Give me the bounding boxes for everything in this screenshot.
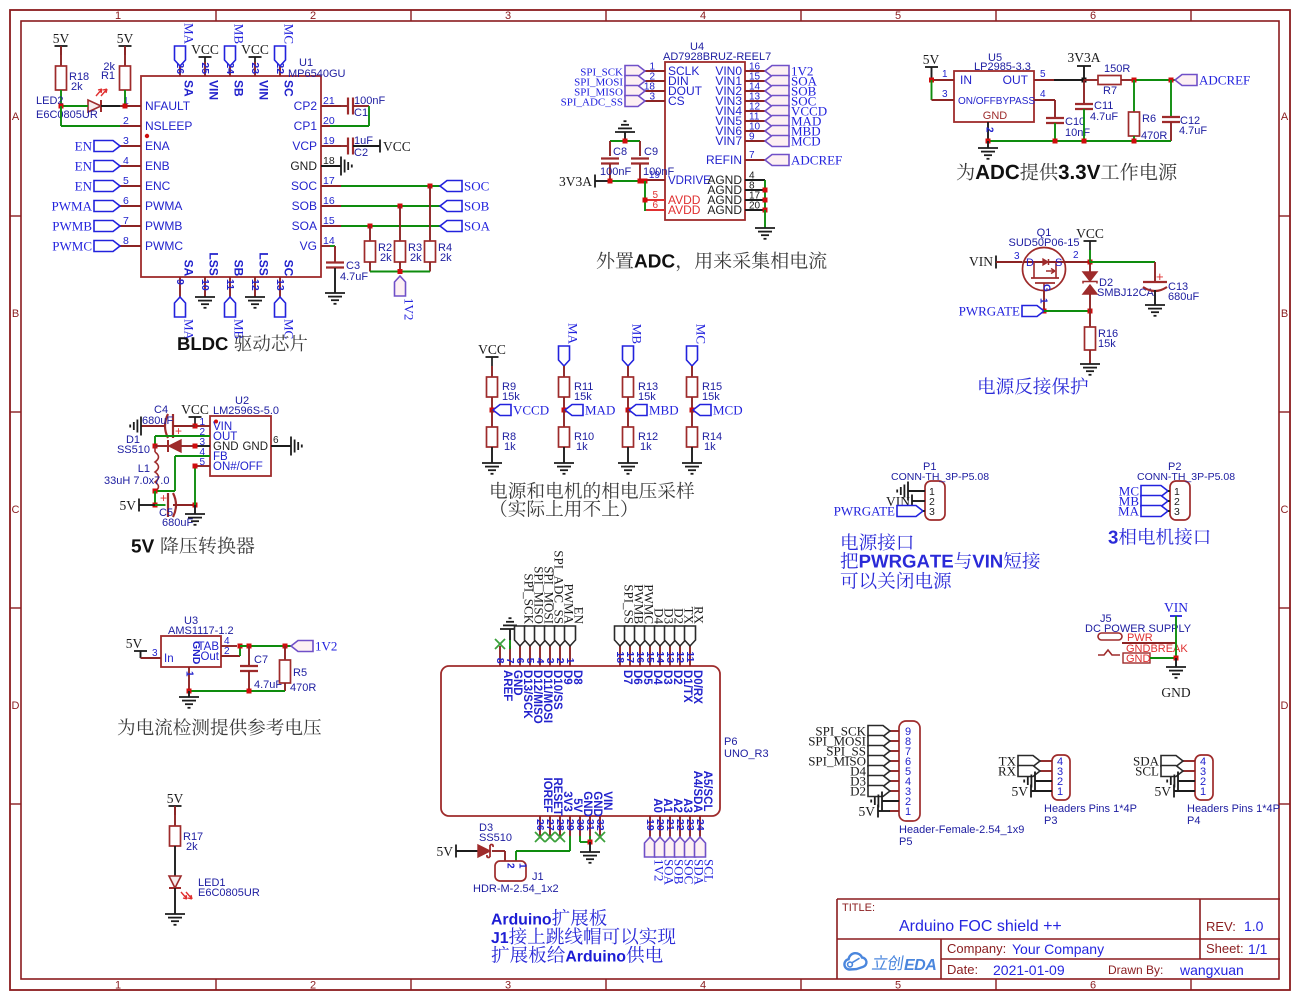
wire SOA net xyxy=(341,224,440,229)
net flag PWMA (P6 top) xyxy=(555,584,577,646)
wire P6 GND pins xyxy=(580,836,593,845)
net flag SOA xyxy=(440,219,491,234)
svg-text:2: 2 xyxy=(310,10,316,22)
svg-text:5V: 5V xyxy=(117,31,134,46)
net flag MBD xyxy=(626,403,679,418)
resistor R17 2k xyxy=(170,826,204,876)
net flag TX (P6 top) xyxy=(675,607,697,646)
net flag D4 (P6 top) xyxy=(645,608,667,646)
U4 pin 3 CS xyxy=(645,92,685,109)
svg-text:PWMA: PWMA xyxy=(52,199,93,214)
svg-text:8: 8 xyxy=(123,235,129,247)
P6 pin 6 D13/SCK xyxy=(514,646,533,719)
svg-text:VCC: VCC xyxy=(383,139,411,154)
svg-text:NSLEEP: NSLEEP xyxy=(145,119,192,133)
svg-text:P3: P3 xyxy=(1044,815,1057,827)
U5 pin 5 OUT wire xyxy=(1034,69,1087,83)
svg-text:1.0: 1.0 xyxy=(1244,918,1264,934)
net flag VCCD (U4) xyxy=(765,104,827,119)
P1 pin 3 / PWRGATE flag xyxy=(834,504,935,519)
svg-text:VCC: VCC xyxy=(478,342,506,357)
net flag 1V2 (below R3) xyxy=(395,276,417,320)
ground (C5) xyxy=(185,505,205,525)
P6 pin 16 D5 xyxy=(634,646,653,685)
net flag SOA (U4) xyxy=(765,74,818,89)
P6 pin 19 A0 xyxy=(644,798,663,837)
P6 pin 24 A5/SCL xyxy=(694,771,713,837)
capacitor C13 680uF xyxy=(1143,262,1199,305)
svg-text:1: 1 xyxy=(115,980,121,992)
TVS diode D2 SMBJ12CA xyxy=(1083,262,1155,311)
svg-text:7: 7 xyxy=(123,215,129,227)
svg-text:5V: 5V xyxy=(1012,784,1029,799)
svg-text:2: 2 xyxy=(505,863,516,869)
svg-text:2021-01-09: 2021-01-09 xyxy=(993,962,1065,978)
svg-text:SCL: SCL xyxy=(1135,764,1159,779)
U1 pin 20 CP1 xyxy=(294,115,341,133)
svg-text:SC: SC xyxy=(281,260,295,277)
svg-text:6: 6 xyxy=(1090,10,1096,22)
svg-text:E6C0805UR: E6C0805UR xyxy=(36,109,98,121)
ground (U5) xyxy=(978,141,998,159)
svg-text:CONN-TH_3P-P5.08: CONN-TH_3P-P5.08 xyxy=(1137,471,1235,483)
U5 pin 4 BYPASS wire xyxy=(1034,89,1055,117)
P4 pin 4 / SDA flag xyxy=(1133,754,1206,769)
svg-text:Out: Out xyxy=(200,651,219,663)
svg-text:GND: GND xyxy=(983,110,1008,122)
resistor R8 1k xyxy=(487,410,517,463)
svg-text:2: 2 xyxy=(984,127,995,133)
svg-text:CS: CS xyxy=(668,94,685,108)
net flag MC (divider top) xyxy=(687,324,709,377)
ground (R16) xyxy=(1080,364,1100,375)
border row letters xyxy=(12,111,1289,712)
LCEDA logo xyxy=(844,953,936,974)
P6 pin 8 AREF xyxy=(494,646,513,701)
svg-text:17: 17 xyxy=(323,175,335,187)
svg-text:SOA: SOA xyxy=(464,219,491,234)
wire C1 to CP1 xyxy=(321,106,369,126)
svg-text:16: 16 xyxy=(323,195,335,207)
connector P6 UNO_R3 body xyxy=(441,666,769,816)
net flag SOA (P6 bottom) xyxy=(655,837,677,886)
wire OUT to D1 xyxy=(155,436,210,446)
connector P1 CONN-TH_3P-P5.08 xyxy=(891,461,989,520)
net flag SPI_ADC_SS (U4) xyxy=(561,96,645,109)
svg-text:MC: MC xyxy=(694,324,709,344)
svg-text:15k: 15k xyxy=(574,391,592,403)
resistor R16 15k xyxy=(1085,311,1119,364)
P6 pin 5 D12/MISO xyxy=(524,646,543,724)
svg-text:21: 21 xyxy=(323,95,335,107)
ground (C4, left) xyxy=(130,417,141,436)
no-connect X (RESET) xyxy=(545,832,555,842)
net flag SPI_SCK (U4) xyxy=(580,66,645,79)
svg-text:ON/OFFBYPASS: ON/OFFBYPASS xyxy=(958,96,1035,107)
svg-text:EN: EN xyxy=(75,139,93,154)
net flag SOC (U4) xyxy=(765,94,816,109)
svg-text:5: 5 xyxy=(895,980,901,992)
ground (U1 pin10 LSS) xyxy=(195,297,215,308)
svg-text:15k: 15k xyxy=(502,391,520,403)
svg-text:ENC: ENC xyxy=(145,179,171,193)
P5 pin 4 / D3 flag xyxy=(850,774,911,789)
svg-text:5V: 5V xyxy=(437,844,454,859)
power flag 5V (D3) xyxy=(437,844,479,859)
Q1 gate wire PWRGATE xyxy=(1038,291,1049,314)
net flag MC (U1 pin22) xyxy=(275,24,297,66)
P5 pin 8 / SPI_MOSI flag xyxy=(808,734,911,749)
svg-text:5V: 5V xyxy=(859,804,876,819)
net flag PWMC (U1) xyxy=(52,239,120,254)
svg-text:+: + xyxy=(160,491,167,505)
wire R2 top xyxy=(369,226,371,241)
svg-text:10nF: 10nF xyxy=(1065,127,1090,139)
U1 pin 16 SOB xyxy=(292,195,341,213)
svg-text:SOB: SOB xyxy=(292,199,317,213)
net flag SOB (P6 bottom) xyxy=(665,837,687,885)
svg-text:9: 9 xyxy=(749,132,755,143)
P6 pin 13 D2 xyxy=(664,646,683,685)
connector P5 Header-Female-2.54_1x9 xyxy=(899,721,1024,848)
svg-text:B: B xyxy=(12,308,19,320)
svg-text:ADCREF: ADCREF xyxy=(1199,73,1250,88)
svg-text:2k: 2k xyxy=(410,252,422,264)
capacitor C5 680uF xyxy=(155,491,198,529)
power 3V3A (U5) xyxy=(1068,50,1101,80)
svg-text:L1: L1 xyxy=(138,463,150,475)
wire P6 5V to J1 xyxy=(516,836,570,861)
U1 pin 3 ENA xyxy=(120,135,170,153)
P6 pin 1 D8 xyxy=(564,646,583,685)
wire AGND rail xyxy=(763,180,768,228)
svg-text:LSS: LSS xyxy=(256,252,270,275)
caption 5V buck xyxy=(132,536,255,554)
svg-text:3: 3 xyxy=(1014,251,1020,262)
svg-text:3: 3 xyxy=(1174,506,1180,518)
svg-text:2: 2 xyxy=(1073,250,1079,261)
svg-text:VCC: VCC xyxy=(1076,226,1104,241)
U4 pin 15 VIN1 xyxy=(715,72,765,89)
U4 pin 16 VIN0 xyxy=(715,62,765,79)
svg-text:ADCREF: ADCREF xyxy=(791,153,842,168)
U1 pin 13 SC xyxy=(274,260,296,297)
svg-text:Arduino FOC shield ++: Arduino FOC shield ++ xyxy=(899,918,1062,935)
svg-text:SOA: SOA xyxy=(292,219,317,233)
ground (U2 pin6) xyxy=(291,437,302,456)
P6 pin 23 A4/SDA xyxy=(684,771,703,837)
svg-text:6: 6 xyxy=(123,195,129,207)
resistor R18 2k xyxy=(56,66,90,106)
U1 pin 22 SC xyxy=(274,62,296,97)
svg-text:7: 7 xyxy=(749,150,755,161)
net flag MAD xyxy=(562,403,616,418)
U1 pin 23 VIN xyxy=(249,62,271,100)
svg-text:23: 23 xyxy=(249,62,261,74)
wire LED2 anode net xyxy=(59,104,89,109)
net flag PWMA (U1) xyxy=(52,199,120,214)
svg-text:15k: 15k xyxy=(638,391,656,403)
svg-text:P5: P5 xyxy=(899,836,912,848)
net flag MCD (U4) xyxy=(765,134,821,149)
svg-text:18: 18 xyxy=(323,155,335,167)
svg-text:SOB: SOB xyxy=(464,199,490,214)
U4 pin 17 AGND xyxy=(707,191,765,208)
caption waizhi ADC xyxy=(597,251,827,271)
svg-text:S: S xyxy=(1055,257,1062,269)
caption phase voltage sampling line2 xyxy=(501,500,626,518)
svg-text:ENA: ENA xyxy=(145,139,170,153)
U4 pin 14 VIN2 xyxy=(715,82,765,99)
P6 pin 30 GND xyxy=(574,791,593,836)
wire NFAULT net xyxy=(101,104,128,109)
capacitor C10 10nF xyxy=(1046,116,1090,141)
svg-text:C2: C2 xyxy=(354,147,368,159)
border column numbers xyxy=(115,10,1096,992)
svg-text:Date:: Date: xyxy=(947,962,978,977)
ground (P6 GND) xyxy=(580,842,600,863)
power flag 5V (U2) xyxy=(120,498,156,513)
U2 pin 6 GND xyxy=(242,435,291,453)
svg-text:Drawn By:: Drawn By: xyxy=(1108,963,1163,977)
svg-text:3: 3 xyxy=(929,506,935,518)
power 5V (R18) xyxy=(53,31,70,66)
svg-text:VCP: VCP xyxy=(292,139,317,153)
svg-text:100nF: 100nF xyxy=(643,166,674,178)
U1 pin 9 SA xyxy=(174,260,196,297)
caption P2 xyxy=(1108,528,1209,545)
resistor R4 2k xyxy=(425,241,453,272)
ground (C13) xyxy=(1145,305,1165,316)
net flag SPI_MISO (P6 top) xyxy=(525,566,547,646)
wire VDRIVE rail xyxy=(608,179,648,184)
net flag SPI_SS (P6 top) xyxy=(615,584,637,646)
caption P1 line3 xyxy=(841,572,951,589)
svg-text:Your Company: Your Company xyxy=(1012,941,1104,957)
wire L1 to 5V node xyxy=(153,491,158,508)
svg-text:E6C0805UR: E6C0805UR xyxy=(198,887,260,899)
P2 pin 3 / MA flag xyxy=(1118,504,1180,519)
U1 pin 19 VCP xyxy=(292,135,341,153)
U2 pin 4 FB xyxy=(195,447,228,463)
svg-text:C9: C9 xyxy=(644,146,658,158)
svg-text:VG: VG xyxy=(300,239,317,253)
power flag VIN (J5) xyxy=(1164,600,1188,616)
svg-text:HDR-M-2.54_1x2: HDR-M-2.54_1x2 xyxy=(473,883,559,895)
no-connect X (AREF) xyxy=(495,639,505,649)
net flag PWMB (U1) xyxy=(52,219,120,234)
connector P2 CONN-TH_3P-P5.08 xyxy=(1137,461,1235,520)
ground (R14) xyxy=(682,463,702,474)
U1 pin 21 CP2 xyxy=(294,95,341,113)
svg-text:3: 3 xyxy=(649,92,655,103)
svg-text:D0/RX: D0/RX xyxy=(691,670,703,704)
svg-text:AGND: AGND xyxy=(707,203,742,217)
svg-text:VIN: VIN xyxy=(1164,600,1188,615)
wire NSLEEP net xyxy=(61,106,120,126)
svg-text:MBD: MBD xyxy=(649,403,679,418)
svg-text:3: 3 xyxy=(505,980,511,992)
svg-text:1V2: 1V2 xyxy=(402,298,417,320)
svg-text:4.7uF: 4.7uF xyxy=(340,271,368,283)
P6 pin 3 D10/SS xyxy=(544,646,563,710)
svg-text:5: 5 xyxy=(895,10,901,22)
P6 pin 11 D0/RX xyxy=(684,646,703,704)
connector P3 Headers Pins 1*4P xyxy=(1044,755,1137,827)
svg-text:IN: IN xyxy=(960,73,972,87)
svg-text:5V: 5V xyxy=(120,498,137,513)
no-connect X (VIN) xyxy=(595,832,605,842)
U1 pin 4 ENB xyxy=(120,155,170,173)
svg-text:5: 5 xyxy=(123,175,129,187)
title block texts xyxy=(842,902,1268,978)
ground (LED1) xyxy=(165,914,185,925)
svg-text:EN: EN xyxy=(572,607,587,625)
U1 pin 14 VG xyxy=(300,235,335,253)
power VCC (U1 pin25) xyxy=(191,42,219,62)
P6 pin 7 GND xyxy=(504,646,523,696)
svg-text:32: 32 xyxy=(594,819,606,831)
svg-text:5V: 5V xyxy=(53,31,70,46)
svg-text:EN: EN xyxy=(75,159,93,174)
U2 pin 1 VIN xyxy=(195,417,232,433)
net flag RX (P6 top) xyxy=(685,606,707,646)
P6 pin 21 A2 xyxy=(664,798,683,837)
capacitor C2 1uF xyxy=(341,135,373,159)
svg-text:SB: SB xyxy=(231,80,245,97)
svg-text:MA: MA xyxy=(566,323,581,345)
svg-text:ENB: ENB xyxy=(145,159,170,173)
caption phase voltage sampling line1 xyxy=(491,482,694,499)
net flag PWMC (P6 top) xyxy=(635,584,657,646)
U4 pin 11 VIN5 xyxy=(715,112,765,129)
U1 pin 6 PWMA xyxy=(120,195,182,213)
resistor R11 15k xyxy=(559,377,594,410)
svg-text:wangxuan: wangxuan xyxy=(1179,962,1244,978)
svg-text:VIN: VIN xyxy=(256,80,270,100)
ADC U4 AD7928BRUZ-REEL7 body xyxy=(663,41,771,220)
net flag MC (U1 pin13) xyxy=(275,297,297,339)
resistor R9 15k xyxy=(487,377,521,410)
caption wei ADC 3.3V xyxy=(957,163,1177,181)
svg-text:6: 6 xyxy=(273,435,279,446)
P6 pin 20 A1 xyxy=(654,798,673,837)
net flag EN (U1) xyxy=(75,179,120,194)
U1 pin 25 VIN xyxy=(199,62,221,100)
capacitor C3 4.7uF xyxy=(326,246,368,293)
P5 pin 9 / SPI_SCK flag xyxy=(815,724,911,739)
capacitor C11 4.7uF xyxy=(1075,80,1118,141)
wire PWRGATE to R16 xyxy=(1044,309,1093,314)
capacitor C1 100nF xyxy=(341,95,385,119)
capacitor C12 4.7uF xyxy=(1162,80,1207,141)
svg-text:R6: R6 xyxy=(1142,113,1156,125)
svg-text:1k: 1k xyxy=(576,441,588,453)
svg-text:AVDD: AVDD xyxy=(668,203,701,217)
net flag SDA (P6 bottom) xyxy=(685,837,707,886)
wire FB net xyxy=(153,456,211,494)
svg-text:SS510: SS510 xyxy=(117,444,150,456)
resistor R15 15k xyxy=(687,377,723,410)
svg-text:CP1: CP1 xyxy=(294,119,318,133)
svg-text:100nF: 100nF xyxy=(600,166,631,178)
svg-text:15: 15 xyxy=(323,215,335,227)
P5 pin 3 / D2 flag xyxy=(850,784,911,799)
svg-text:MC: MC xyxy=(282,24,297,44)
power VCC (divider) xyxy=(478,342,506,377)
U3 pin 4 TAB wire xyxy=(221,636,237,647)
svg-text:A: A xyxy=(1281,111,1289,123)
svg-text:24: 24 xyxy=(694,819,706,831)
svg-text:1k: 1k xyxy=(504,441,516,453)
U1 pin 17 SOC xyxy=(291,175,341,193)
svg-text:13: 13 xyxy=(274,279,286,291)
transistor Q1 SUD50P06-15 xyxy=(1009,227,1080,292)
svg-text:D8: D8 xyxy=(571,670,583,685)
no-connect X (IOREF) xyxy=(535,832,545,842)
svg-text:REV:: REV: xyxy=(1206,919,1236,934)
P6 pin 14 D3 xyxy=(654,646,673,685)
svg-text:Headers Pins 1*4P: Headers Pins 1*4P xyxy=(1044,803,1137,815)
svg-text:6: 6 xyxy=(652,200,658,211)
svg-text:Company:: Company: xyxy=(947,941,1006,956)
svg-text:CP2: CP2 xyxy=(294,99,318,113)
svg-text:C: C xyxy=(1281,504,1289,516)
ground (U3) xyxy=(179,691,199,708)
caption U3 reference voltage xyxy=(118,718,321,735)
svg-text:680uF: 680uF xyxy=(162,517,193,529)
P6 pin 17 D6 xyxy=(624,646,643,685)
svg-text:SA: SA xyxy=(181,260,195,277)
net flag ADCREF (U4) xyxy=(765,153,842,168)
svg-text:SA: SA xyxy=(181,80,195,97)
net flag 1V2 (P6 bottom) xyxy=(645,837,667,881)
svg-text:4: 4 xyxy=(1040,89,1046,100)
svg-text:2k: 2k xyxy=(440,252,452,264)
wire J5 PWR to VIN xyxy=(1122,616,1176,658)
svg-text:UNO_R3: UNO_R3 xyxy=(724,748,769,760)
wire TAB/Out to 1V2 xyxy=(240,644,291,649)
net flag 1V2 (U3) xyxy=(291,639,337,654)
U2 pin 5 ON#/OFF xyxy=(195,457,263,473)
svg-text:C1: C1 xyxy=(354,107,368,119)
svg-text:1: 1 xyxy=(1038,298,1049,304)
regulator U5 LP2985-3.3 body xyxy=(954,52,1035,122)
svg-text:SS510: SS510 xyxy=(479,832,512,844)
U4 pin 1 SCLK xyxy=(645,62,699,79)
svg-text:2: 2 xyxy=(310,980,316,992)
svg-text:4.7uF: 4.7uF xyxy=(1179,125,1207,137)
net flag SOC xyxy=(440,179,489,194)
caption P1 line1 xyxy=(842,533,912,550)
regulator U2 LM2596S-5.0 body xyxy=(210,395,279,476)
svg-text:R1: R1 xyxy=(101,70,115,82)
svg-text:12: 12 xyxy=(249,279,261,291)
svg-text:SC: SC xyxy=(281,80,295,97)
svg-text:1V2: 1V2 xyxy=(315,639,337,654)
svg-text:C8: C8 xyxy=(613,146,627,158)
svg-text:4: 4 xyxy=(700,980,706,992)
LED LED2 E6C0805UR xyxy=(36,89,107,121)
ground (C3) xyxy=(325,293,345,304)
U5 pin 2 GND xyxy=(984,122,995,141)
ground (U1 pin12 LSS) xyxy=(245,297,265,308)
svg-text:3: 3 xyxy=(505,10,511,22)
svg-text:15k: 15k xyxy=(702,391,720,403)
svg-text:2k: 2k xyxy=(71,81,83,93)
power 5V (R1) xyxy=(117,31,134,66)
svg-text:5V: 5V xyxy=(167,791,184,806)
